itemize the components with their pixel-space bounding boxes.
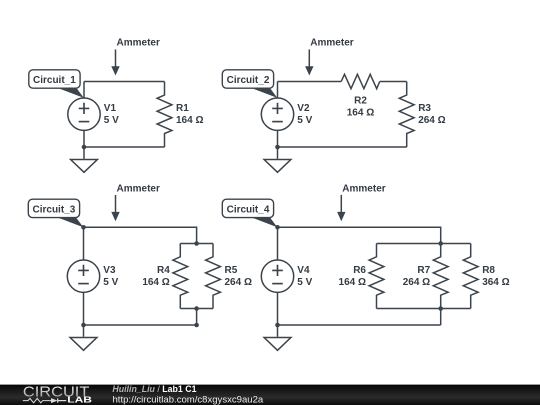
svg-text:R1: R1 xyxy=(176,103,189,114)
junction xyxy=(194,241,199,246)
svg-text:V2: V2 xyxy=(297,103,310,114)
svg-text:Circuit_1: Circuit_1 xyxy=(33,75,76,86)
svg-text:V3: V3 xyxy=(103,265,116,276)
voltage source V3 xyxy=(67,260,99,292)
resistor R1 xyxy=(157,82,172,148)
svg-text:http://circuitlab.com/c8xgysxc: http://circuitlab.com/c8xgysxc9au2a xyxy=(113,395,264,405)
junction xyxy=(275,145,280,150)
wire: bottom bracket xyxy=(377,308,471,310)
svg-text:164 Ω: 164 Ω xyxy=(339,277,366,288)
svg-text:Huilin_Liu / Lab1 C1: Huilin_Liu / Lab1 C1 xyxy=(112,384,196,394)
ammeter probe flag xyxy=(305,38,354,76)
junction xyxy=(194,323,199,328)
wire: V4 bottom lead xyxy=(277,292,279,325)
svg-text:Circuit_3: Circuit_3 xyxy=(33,205,76,216)
ground xyxy=(264,325,291,350)
svg-text:164 Ω: 164 Ω xyxy=(142,277,169,288)
resistor R4 xyxy=(173,244,188,309)
wire: V4 top lead xyxy=(277,227,279,260)
resistor R7 xyxy=(433,244,448,309)
ammeter probe flag xyxy=(337,184,386,222)
ammeter probe flag xyxy=(111,38,160,76)
junction xyxy=(81,225,86,230)
resistor R5 xyxy=(206,244,221,309)
svg-text:R6: R6 xyxy=(353,265,366,276)
wire: bottom bracket xyxy=(180,308,213,310)
svg-text:V4: V4 xyxy=(297,265,310,276)
svg-text:264 Ω: 264 Ω xyxy=(225,277,252,288)
junction xyxy=(194,306,199,311)
CircuitLab logo glyph (wire, resistor squiggle, diode) xyxy=(23,398,67,402)
junction xyxy=(438,306,443,311)
svg-text:V1: V1 xyxy=(104,103,117,114)
wire: V3 top lead xyxy=(83,227,85,260)
ground xyxy=(70,325,97,350)
svg-text:LAB: LAB xyxy=(67,396,92,405)
wire: V3 bottom lead xyxy=(83,292,85,325)
wire: Circuit 3: top wire xyxy=(84,227,197,243)
voltage source V1 xyxy=(68,98,100,130)
svg-text:5 V: 5 V xyxy=(297,277,312,288)
svg-text:364 Ω: 364 Ω xyxy=(482,277,509,288)
wire: top bracket xyxy=(180,243,213,245)
resistor R8 xyxy=(463,244,478,309)
svg-text:Ammeter: Ammeter xyxy=(117,38,160,49)
svg-text:Ammeter: Ammeter xyxy=(117,183,160,194)
wire: Circuit 2: top wire left segment xyxy=(278,81,342,83)
svg-text:Circuit_2: Circuit_2 xyxy=(227,75,270,86)
svg-text:Ammeter: Ammeter xyxy=(342,184,385,195)
ammeter probe flag xyxy=(111,183,160,221)
svg-text:R2: R2 xyxy=(354,96,367,107)
svg-text:264 Ω: 264 Ω xyxy=(403,277,430,288)
voltage source V2 xyxy=(261,98,293,130)
junction xyxy=(275,225,280,230)
junction xyxy=(438,241,443,246)
resistor R3 xyxy=(399,82,414,148)
wire: bottom xyxy=(84,324,197,326)
wire: V1 bottom lead xyxy=(83,130,85,147)
junction xyxy=(275,323,280,328)
svg-text:R8: R8 xyxy=(482,265,495,276)
resistor R6 xyxy=(369,244,384,309)
wire: bottom xyxy=(278,324,441,326)
callout label Circuit_3 xyxy=(28,199,83,227)
ground xyxy=(264,147,291,172)
wire: Circuit 4: top wire xyxy=(278,227,441,243)
svg-text:164 Ω: 164 Ω xyxy=(176,115,203,126)
svg-text:264 Ω: 264 Ω xyxy=(418,115,445,126)
wire: circuit 1 top xyxy=(84,81,165,83)
wire: bracket to bottom xyxy=(196,309,198,326)
svg-text:5 V: 5 V xyxy=(103,277,118,288)
callout label Circuit_1 xyxy=(29,70,84,98)
svg-text:R4: R4 xyxy=(157,265,170,276)
ground xyxy=(71,147,98,172)
svg-text:5 V: 5 V xyxy=(297,115,312,126)
wire: bottom xyxy=(278,146,407,148)
svg-text:Ammeter: Ammeter xyxy=(310,38,353,49)
wire: V1 top lead xyxy=(83,82,85,99)
wire: bottom xyxy=(84,146,165,148)
svg-text:R3: R3 xyxy=(418,103,431,114)
svg-text:Circuit_4: Circuit_4 xyxy=(227,205,270,216)
wire: bracket to bottom xyxy=(440,309,442,326)
svg-text:164 Ω: 164 Ω xyxy=(347,108,374,119)
svg-text:R7: R7 xyxy=(417,265,430,276)
wire: V2 bottom lead xyxy=(277,130,279,147)
junction xyxy=(81,323,86,328)
callout label Circuit_4 xyxy=(222,199,277,227)
wire: V2 top lead xyxy=(277,82,279,99)
resistor R2 xyxy=(341,74,380,88)
wire: top right segment xyxy=(380,81,407,83)
voltage source V4 xyxy=(261,260,293,292)
junction xyxy=(82,145,87,150)
callout label Circuit_2 xyxy=(222,70,277,98)
wire: top bracket xyxy=(377,243,471,245)
svg-text:R5: R5 xyxy=(225,265,238,276)
svg-text:5 V: 5 V xyxy=(104,115,119,126)
